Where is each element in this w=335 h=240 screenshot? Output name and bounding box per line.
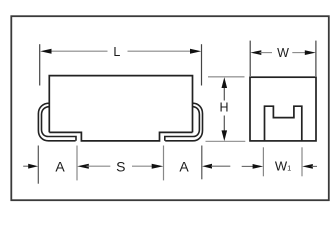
svg-text:H: H [219,101,228,115]
dimension S right arrowhead [152,164,164,169]
svg-text:L: L [113,45,120,59]
end view terminal profile [265,106,302,141]
svg-text:S: S [116,159,125,175]
bottom extension line 1 [37,146,39,184]
capacitor body end view [250,77,316,141]
body bottom pedestal step [49,132,192,141]
dimension H bottom reference line [206,140,246,142]
dimension L arrowhead left [40,49,51,54]
dimension L extension line left [39,44,41,85]
svg-text:A: A [55,159,65,175]
dimension S left arrowhead [77,164,89,169]
svg-text:W: W [277,46,289,60]
dimension W1 left arrowhead [253,164,264,169]
dimension W1 right arrowhead [302,164,313,169]
dimension W1 left arrow shaft [242,165,254,167]
dimension L line right shaft [128,50,193,52]
dimension W extension line right [315,41,317,76]
dimension A left outside arrowhead [28,164,38,169]
dimension A left outside arrow shaft [23,165,31,167]
dimension H lower shaft [223,116,225,133]
left terminal outer curl [38,103,75,141]
bottom extension line 4 [201,146,203,180]
dimension H upper shaft [223,87,225,101]
dimension H arrowhead down [222,130,228,141]
dimension W right shaft [292,52,306,54]
bottom extension line 3 [163,146,165,181]
bottom extension line 2 [76,146,78,181]
dimension W1 extension line left [262,147,264,176]
left terminal inner curl [42,107,77,141]
dimension W right arrowhead [305,50,316,55]
capacitor body side view [49,76,192,133]
dimension L extension line right [201,44,203,85]
right terminal outer curl [165,103,202,141]
dimension A right outside arrowhead [202,164,212,169]
dimension W1 extension line right [301,147,303,176]
dimension W left arrowhead [250,50,261,55]
dimension L arrowhead right [190,49,201,54]
dimension S right shaft [132,165,154,167]
outer border frame [11,16,329,200]
dimension W1 right arrow shaft [312,165,318,167]
dimension H arrowhead up [222,77,228,88]
dimension A right outside arrow shaft [211,165,230,167]
svg-text:W: W [275,159,288,174]
dimension W left shaft [260,52,273,54]
dimension H top reference line [208,76,245,78]
svg-text:A: A [179,159,189,175]
dimension W extension line left [249,41,251,76]
right terminal inner curl [165,107,200,141]
dimension S left shaft [87,165,111,167]
svg-text:1: 1 [287,166,291,173]
dimension L line left shaft [48,50,108,52]
